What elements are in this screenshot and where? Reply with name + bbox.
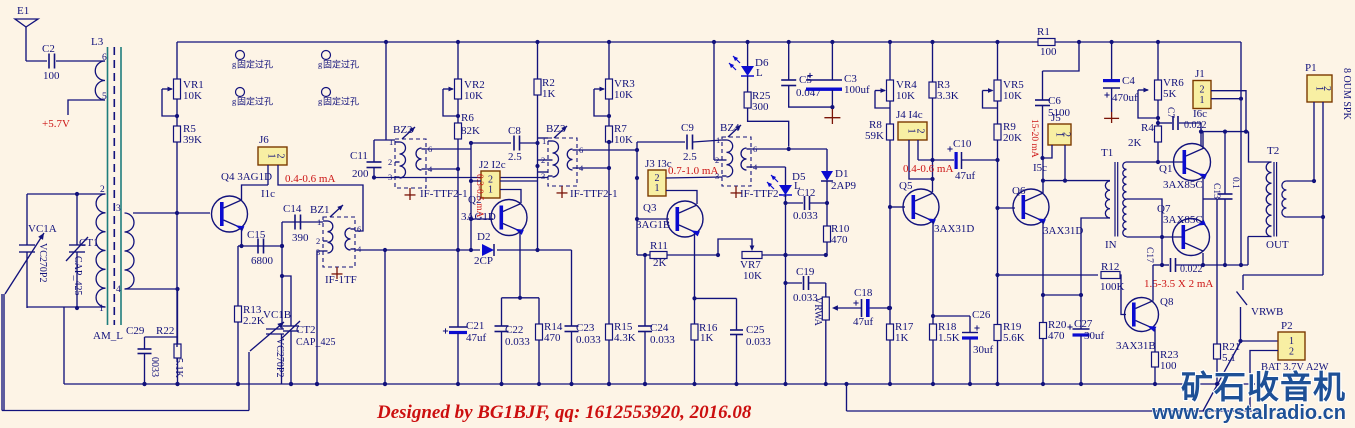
capacitor C19 bbox=[786, 266, 826, 304]
svg-text:2: 2 bbox=[541, 155, 545, 165]
wire J1 pin2 bbox=[1211, 91, 1246, 132]
svg-text:固定过孔: 固定过孔 bbox=[237, 59, 273, 70]
wire D1 to C12 bbox=[825, 181, 829, 205]
connector P2 bbox=[1278, 320, 1305, 360]
svg-text:CT1: CT1 bbox=[79, 237, 99, 249]
wire emitter Q6 bbox=[1041, 221, 1045, 323]
svg-text:15-20 mA: 15-20 mA bbox=[1029, 119, 1039, 158]
wire T1 sec bottom base Q7 bbox=[1127, 236, 1184, 238]
connector J4 bbox=[896, 109, 927, 140]
svg-text:J2 I2c: J2 I2c bbox=[479, 159, 506, 171]
wire J4 pin1 bbox=[909, 140, 933, 179]
svg-text:Q1: Q1 bbox=[1159, 163, 1172, 175]
svg-text:C24: C24 bbox=[650, 322, 669, 334]
svg-text:3: 3 bbox=[116, 204, 121, 214]
capacitor C18 47uf bbox=[834, 287, 891, 328]
label 8 OUM SPK bbox=[1341, 68, 1352, 120]
svg-text:3: 3 bbox=[388, 172, 392, 182]
svg-text:6: 6 bbox=[357, 224, 361, 234]
capacitor C24 bbox=[638, 255, 675, 386]
svg-text:C23: C23 bbox=[576, 322, 595, 334]
label I1c bbox=[261, 188, 275, 200]
potentiometer VR6 bbox=[1138, 40, 1184, 120]
connector P1 bbox=[1305, 62, 1332, 102]
transistor Q6 3AX31D bbox=[1012, 185, 1083, 237]
svg-text:VC1A: VC1A bbox=[28, 223, 57, 235]
svg-text:100: 100 bbox=[1160, 360, 1177, 372]
wire AGC column bbox=[457, 139, 459, 250]
label BAT bbox=[1261, 362, 1329, 373]
svg-text:CT2: CT2 bbox=[296, 324, 316, 336]
wire BZ1 pin3 to bus bbox=[315, 251, 323, 386]
svg-text:47uf: 47uf bbox=[853, 316, 874, 328]
wire bbox=[27, 193, 106, 195]
designer note bbox=[376, 402, 752, 423]
svg-text:39K: 39K bbox=[183, 134, 202, 146]
svg-text:IF-TTF2-1: IF-TTF2-1 bbox=[420, 188, 468, 200]
svg-text:Q4 3AG1D: Q4 3AG1D bbox=[221, 171, 272, 183]
capacitor C5 bbox=[781, 40, 821, 99]
resistor R17 bbox=[887, 308, 914, 386]
svg-text:10K: 10K bbox=[464, 90, 483, 102]
transformer T2 bbox=[1266, 145, 1289, 251]
svg-text:C21: C21 bbox=[466, 320, 484, 332]
svg-text:82K: 82K bbox=[461, 125, 480, 137]
wire J2 pin2 supply bbox=[469, 179, 538, 183]
wire base Q4 bbox=[133, 212, 210, 214]
LED D5 bbox=[767, 171, 806, 195]
capacitor C22 bbox=[495, 298, 531, 384]
svg-text:2: 2 bbox=[1060, 132, 1071, 137]
wire BZ3 pin6 bbox=[577, 149, 637, 151]
resistor R1 bbox=[1037, 26, 1057, 58]
resistor R6 bbox=[455, 99, 481, 139]
wire bbox=[27, 306, 106, 308]
wire C5 bottom bbox=[789, 86, 835, 110]
wire D5 column bbox=[783, 195, 787, 386]
wire R20 C27 link bbox=[1043, 293, 1083, 297]
wire pin6 base column bbox=[635, 142, 639, 255]
wire collector Q8 bbox=[1152, 265, 1154, 300]
svg-text:47uf: 47uf bbox=[955, 170, 976, 182]
svg-text:3AX31D: 3AX31D bbox=[1043, 225, 1083, 237]
wire R12 line bbox=[998, 274, 1099, 276]
capacitor C25 bbox=[730, 298, 771, 386]
wire base column bbox=[175, 142, 179, 347]
resistor R14 bbox=[536, 298, 563, 384]
svg-text:VC270P2: VC270P2 bbox=[274, 338, 285, 377]
wire R11 to VR7 bbox=[667, 253, 720, 257]
svg-text:0.033: 0.033 bbox=[576, 334, 601, 346]
svg-text:J4 I4c: J4 I4c bbox=[896, 109, 923, 121]
svg-text:D1: D1 bbox=[835, 168, 848, 180]
svg-text:3AX31D: 3AX31D bbox=[934, 223, 974, 235]
capacitor C2 bbox=[42, 43, 60, 82]
svg-text:P2: P2 bbox=[1281, 320, 1293, 332]
transformer BZ3 IF-TTF2-1 bbox=[541, 123, 584, 186]
capacitor C3 100uf bbox=[806, 40, 870, 96]
wire VRWA bottom bbox=[824, 320, 828, 386]
svg-text:C7: C7 bbox=[1165, 107, 1175, 118]
ground BZ4 bbox=[731, 186, 742, 198]
svg-text:R6: R6 bbox=[461, 112, 474, 124]
resistor R7 bbox=[606, 99, 634, 146]
wire D1 drop bbox=[826, 149, 828, 171]
wire J3 pin1 collector bbox=[666, 191, 697, 205]
wire J5 pin1 bbox=[1040, 145, 1052, 160]
svg-text:C22: C22 bbox=[505, 324, 523, 336]
wire collector Q4 bbox=[242, 185, 269, 200]
svg-text:2: 2 bbox=[274, 154, 285, 159]
transistor Q1 3AX85C bbox=[1159, 144, 1211, 192]
resistor R18 bbox=[930, 321, 960, 386]
antenna E1 bbox=[15, 5, 38, 61]
switch VRWB bbox=[1237, 275, 1284, 342]
svg-text:C19: C19 bbox=[796, 266, 815, 278]
svg-text:10K: 10K bbox=[614, 89, 633, 101]
node +5.7V bbox=[42, 118, 70, 130]
wire P2 pin2 bbox=[1250, 351, 1278, 412]
resistor R21 bbox=[1214, 199, 1241, 386]
svg-text:C11: C11 bbox=[350, 150, 368, 162]
left ground rail bbox=[2, 294, 249, 411]
top supply bus bbox=[177, 41, 1241, 43]
capacitor C7 bbox=[1158, 107, 1207, 146]
wire VC1B rotor bbox=[248, 352, 250, 411]
svg-text:2K: 2K bbox=[1128, 137, 1142, 149]
capacitor C13 bbox=[1211, 132, 1240, 268]
wire T1 sec top bbox=[1127, 160, 1184, 164]
svg-text:C29: C29 bbox=[126, 325, 145, 337]
svg-text:IF-TTF2-1: IF-TTF2-1 bbox=[740, 188, 788, 200]
resistor R10 bbox=[824, 203, 850, 255]
svg-text:1: 1 bbox=[655, 183, 660, 194]
wire emitter RC link bbox=[502, 297, 540, 299]
svg-text:2: 2 bbox=[914, 129, 925, 134]
wire emitter Q2 bbox=[518, 231, 522, 300]
potentiometer VR4 bbox=[875, 40, 917, 108]
svg-text:C4: C4 bbox=[1122, 75, 1135, 87]
svg-text:C9: C9 bbox=[681, 122, 694, 134]
capacitor C6 bbox=[1035, 40, 1081, 158]
label IF-1TF bbox=[325, 274, 357, 286]
svg-text:www.crystalradio.cn: www.crystalradio.cn bbox=[1151, 402, 1346, 424]
svg-text:D2: D2 bbox=[477, 231, 490, 243]
resistor R22 bbox=[156, 289, 184, 386]
svg-text:470: 470 bbox=[1048, 330, 1065, 342]
wire T1 primary top bbox=[1043, 180, 1110, 182]
resistor R2 bbox=[534, 40, 556, 100]
capacitor C23 bbox=[565, 250, 602, 384]
wire J6 pin2 bbox=[278, 165, 363, 231]
resistor R5 bbox=[174, 99, 203, 146]
wire emitter Q8 bbox=[1154, 329, 1156, 352]
svg-text:1: 1 bbox=[389, 137, 393, 147]
wire collector Q7 bbox=[1201, 253, 1205, 267]
svg-text:6: 6 bbox=[102, 53, 107, 63]
wire J6 pin1 bbox=[267, 165, 269, 185]
ground BZ3 bbox=[557, 186, 568, 198]
wire bbox=[68, 100, 105, 115]
wire J5 pin2 bbox=[1064, 145, 1066, 181]
svg-text:J1: J1 bbox=[1195, 68, 1205, 80]
wire P2 pin1 bbox=[1238, 339, 1278, 343]
right ground rail bbox=[844, 382, 1260, 411]
svg-text:4: 4 bbox=[116, 285, 121, 295]
svg-text:0033: 0033 bbox=[149, 357, 160, 377]
wire collector node bbox=[1041, 179, 1067, 183]
wire VR7 right bbox=[762, 253, 828, 257]
wire BZ2 pin6 column bbox=[426, 141, 473, 250]
wire pin4 bbox=[125, 287, 180, 291]
svg-text:OUT: OUT bbox=[1266, 239, 1289, 251]
wire J2 pin1 collector bbox=[500, 190, 521, 204]
trimmer capacitor CT1 bbox=[66, 192, 99, 310]
capacitor C11 bbox=[350, 140, 382, 180]
svg-text:IF-TTF2-1: IF-TTF2-1 bbox=[570, 188, 618, 200]
svg-text:470uf: 470uf bbox=[1112, 92, 1138, 104]
capacitor C26 30uf bbox=[962, 309, 994, 386]
wire J3 pin2 bbox=[666, 177, 722, 178]
transformer BZ4 IF-TTF2-1 bbox=[715, 122, 758, 186]
capacitor C17 bbox=[1144, 247, 1248, 275]
wire ground drop bbox=[63, 307, 65, 384]
transistor Q4 3AG1D bbox=[212, 171, 273, 232]
svg-text:T1: T1 bbox=[1101, 147, 1113, 159]
LED D6 bbox=[729, 56, 769, 79]
mounting hole 4 bbox=[318, 88, 359, 107]
inductor AM_L secondary winding bbox=[116, 204, 134, 295]
svg-text:IN: IN bbox=[1105, 239, 1117, 251]
wire R2 column bbox=[535, 95, 539, 252]
svg-text:R4: R4 bbox=[1141, 122, 1154, 134]
svg-text:Designed by BG1BJF, qq: 161255: Designed by BG1BJF, qq: 1612553920, 2016… bbox=[376, 402, 752, 423]
wire base Q2 bbox=[471, 218, 493, 220]
svg-text:J5: J5 bbox=[1051, 112, 1061, 124]
svg-text:0.1: 0.1 bbox=[1230, 177, 1240, 189]
wire R8 column bbox=[888, 140, 892, 310]
resistor R8 bbox=[865, 101, 894, 142]
potentiometer VR1 bbox=[162, 42, 204, 118]
wire R25 out bbox=[748, 108, 789, 147]
potentiometer VR2 bbox=[443, 40, 485, 118]
svg-text:0.022: 0.022 bbox=[1184, 120, 1207, 131]
resistor R9 bbox=[994, 101, 1022, 144]
svg-text:10K: 10K bbox=[896, 90, 915, 102]
svg-text:1: 1 bbox=[1200, 95, 1205, 106]
svg-text:C13: C13 bbox=[1211, 183, 1221, 199]
wire ground drop bbox=[383, 250, 387, 386]
svg-text:470: 470 bbox=[544, 332, 561, 344]
svg-text:I1c: I1c bbox=[261, 188, 275, 200]
svg-text:1K: 1K bbox=[895, 332, 909, 344]
wire BZ2 pin4 bbox=[426, 167, 460, 171]
svg-text:C14: C14 bbox=[283, 203, 302, 215]
svg-text:200: 200 bbox=[352, 168, 369, 180]
ferrite rod core bbox=[108, 47, 122, 325]
wire bus drop BZ2 bbox=[374, 40, 395, 140]
svg-text:1: 1 bbox=[488, 185, 493, 196]
wire P1 pin2 bbox=[1243, 102, 1323, 275]
resistor R3 bbox=[929, 40, 959, 102]
svg-text:C8: C8 bbox=[508, 125, 521, 137]
wire bbox=[56, 60, 105, 62]
resistor R19 bbox=[994, 321, 1025, 386]
resistor R15 bbox=[606, 321, 636, 386]
wire R9 column bbox=[995, 140, 999, 323]
svg-text:1: 1 bbox=[1289, 336, 1294, 347]
svg-text:2: 2 bbox=[1321, 86, 1332, 91]
wire C10 line bbox=[918, 159, 954, 161]
svg-text:2K: 2K bbox=[653, 257, 667, 269]
potentiometer VR5 bbox=[983, 40, 1025, 108]
transformer BZ1 IF-1TF bbox=[310, 204, 362, 267]
svg-text:0.7-1.0 mA: 0.7-1.0 mA bbox=[668, 165, 718, 177]
wire BZ3 pin4 bbox=[577, 166, 611, 170]
svg-text:R1: R1 bbox=[1037, 26, 1050, 38]
transistor Q7 3AX85C bbox=[1157, 203, 1210, 256]
ground BZ2 bbox=[405, 188, 416, 200]
trimmer capacitor CT2 bbox=[281, 276, 335, 386]
bottom ground bus bbox=[64, 383, 1255, 385]
ground C4 bbox=[1104, 112, 1119, 123]
label current 0.7-1.0 mA bbox=[668, 165, 718, 177]
svg-text:10K: 10K bbox=[1003, 90, 1022, 102]
wire bus drop D6 bbox=[746, 40, 750, 66]
svg-text:1.5-3.5 X 2 mA: 1.5-3.5 X 2 mA bbox=[1144, 278, 1213, 290]
capacitor C4 470uf bbox=[1103, 40, 1138, 112]
svg-text:8 OUM SPK: 8 OUM SPK bbox=[1341, 68, 1352, 120]
transformer T1 bbox=[1101, 147, 1127, 251]
mounting hole 3 bbox=[232, 88, 273, 107]
svg-text:0.033: 0.033 bbox=[505, 336, 530, 348]
wire bus drop pin2 bbox=[712, 40, 722, 160]
label IF-TTF2-1 bbox=[740, 188, 788, 200]
svg-text:30uf: 30uf bbox=[1084, 330, 1105, 342]
wire T2 primary bottom bbox=[1248, 237, 1272, 266]
connector J6 bbox=[258, 134, 287, 165]
svg-text:2.2K: 2.2K bbox=[243, 315, 265, 327]
wire emitter Q3 bbox=[692, 233, 736, 301]
wire emitters junction bbox=[1203, 176, 1217, 221]
transistor Q5 3AX31D bbox=[899, 180, 974, 235]
svg-text:J6: J6 bbox=[259, 134, 269, 146]
svg-text:R22: R22 bbox=[156, 325, 174, 337]
svg-text:3AX85C: 3AX85C bbox=[1163, 179, 1203, 191]
svg-text:IF-1TF: IF-1TF bbox=[325, 274, 357, 286]
inductor L3 winding bbox=[91, 36, 107, 102]
wire T1 primary bottom bbox=[1081, 218, 1110, 295]
capacitor C9 bbox=[637, 122, 722, 163]
svg-text:5K: 5K bbox=[1163, 88, 1177, 100]
svg-text:59K: 59K bbox=[865, 130, 884, 142]
connector J5 bbox=[1048, 112, 1071, 145]
svg-text:AM_L: AM_L bbox=[93, 330, 123, 342]
svg-text:3AX85C: 3AX85C bbox=[1163, 214, 1203, 226]
svg-text:1K: 1K bbox=[700, 332, 714, 344]
svg-text:0.4-0.6 mA: 0.4-0.6 mA bbox=[903, 163, 953, 175]
svg-text:C26: C26 bbox=[972, 309, 991, 321]
svg-text:R11: R11 bbox=[650, 240, 668, 252]
label current 0.3-0.5 mA bbox=[474, 174, 484, 218]
svg-text:C10: C10 bbox=[953, 138, 972, 150]
variable capacitor VC1A bbox=[5, 194, 57, 308]
svg-text:C25: C25 bbox=[746, 324, 765, 336]
label IF-TTF2-1 bbox=[420, 188, 468, 200]
svg-text:C27: C27 bbox=[1074, 318, 1093, 330]
svg-text:4.3K: 4.3K bbox=[614, 332, 636, 344]
resistor R16 bbox=[691, 298, 718, 386]
wire junction column bbox=[280, 222, 284, 329]
wire emitter Q5 bbox=[931, 221, 935, 324]
wire P1 pin1 bbox=[1313, 102, 1315, 181]
resistor R25 bbox=[744, 76, 771, 113]
capacitor C8 bbox=[471, 125, 538, 163]
label AM_L bbox=[93, 330, 123, 342]
capacitor C12 bbox=[786, 187, 828, 222]
wire R4 column bbox=[1157, 142, 1159, 162]
wire base Q6 bbox=[998, 207, 1016, 209]
svg-text:C6: C6 bbox=[1048, 95, 1061, 107]
wire pin3 rail bbox=[374, 177, 548, 179]
variable capacitor VC1B bbox=[250, 309, 291, 384]
svg-text:0.033: 0.033 bbox=[746, 336, 771, 348]
potentiometer VR7 bbox=[718, 239, 762, 282]
connector J1 bbox=[1193, 68, 1211, 120]
svg-text:VC270P2: VC270P2 bbox=[37, 243, 48, 282]
wire emitter drop bbox=[238, 245, 242, 247]
svg-text:L3: L3 bbox=[91, 36, 104, 48]
svg-text:3.3K: 3.3K bbox=[937, 90, 959, 102]
svg-text:2: 2 bbox=[316, 236, 320, 246]
svg-text:R12: R12 bbox=[1101, 261, 1119, 273]
svg-text:2: 2 bbox=[388, 157, 392, 167]
wire collector Q6 bbox=[1042, 158, 1044, 193]
svg-text:2: 2 bbox=[1200, 84, 1205, 95]
mounting hole 1 bbox=[232, 51, 273, 70]
wire BZ4 pin4 drop bbox=[751, 167, 786, 185]
wire R7 column bbox=[607, 140, 611, 324]
wire right bus drop bbox=[1240, 42, 1242, 265]
svg-text:I5c: I5c bbox=[1033, 162, 1047, 174]
svg-text:固定过孔: 固定过孔 bbox=[323, 59, 359, 70]
transistor Q3 3AG1B bbox=[636, 201, 703, 237]
wire base Q1 bbox=[0, 0, 1, 1]
connector J2 bbox=[479, 159, 506, 198]
svg-text:20K: 20K bbox=[1003, 132, 1022, 144]
svg-text:100uf: 100uf bbox=[844, 84, 870, 96]
wire T1 sec tap bbox=[1127, 199, 1165, 267]
wire rotor to rail bbox=[3, 294, 5, 411]
svg-text:10K: 10K bbox=[614, 134, 633, 146]
wire C19 to VRWA bbox=[825, 283, 827, 297]
wire detector line bbox=[355, 248, 572, 252]
svg-text:VRWA: VRWA bbox=[812, 297, 823, 327]
svg-text:I6c: I6c bbox=[1193, 108, 1207, 120]
capacitor C21 47uf bbox=[443, 250, 487, 384]
svg-text:T2: T2 bbox=[1267, 145, 1279, 157]
wire BZ3 pin stubs bbox=[538, 138, 549, 172]
svg-text:0.033: 0.033 bbox=[793, 210, 818, 222]
svg-text:3: 3 bbox=[541, 171, 545, 181]
transformer BZ2 IF-TTF2-1 bbox=[388, 124, 433, 188]
wire detector out line bbox=[751, 147, 827, 151]
svg-text:2CP: 2CP bbox=[474, 255, 493, 267]
wire emitter Q4 bbox=[241, 228, 243, 246]
svg-text:100: 100 bbox=[43, 70, 60, 82]
svg-text:L: L bbox=[756, 67, 763, 79]
svg-text:CAP_425: CAP_425 bbox=[72, 256, 83, 295]
